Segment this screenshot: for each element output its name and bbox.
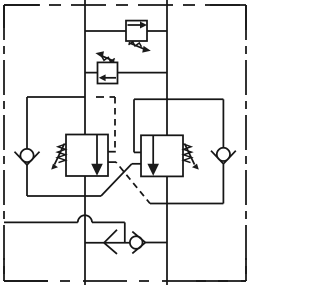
check valve CV3 seat xyxy=(132,232,145,254)
counterbalance CB2 flow arrow xyxy=(152,136,154,165)
wire line A upper xyxy=(84,0,86,135)
wire port line from left boundary xyxy=(4,221,78,223)
relief valve RV1 adjust arrow xyxy=(129,43,144,49)
wire bottom left branch xyxy=(27,195,101,197)
wire CB2 lower-left stub xyxy=(132,163,141,165)
counterbalance CB1 body xyxy=(66,135,108,177)
counterbalance CB2 adjust arrow xyxy=(185,144,195,165)
relief valve RV1 spring xyxy=(129,42,142,47)
enclosure border top xyxy=(4,4,246,6)
wire bottom link right xyxy=(145,242,167,244)
relief valve RV1 flow arrow xyxy=(128,24,141,26)
wire line B lower xyxy=(166,176,168,285)
relief valve RV2 body xyxy=(98,62,118,83)
counterbalance CB2 spring xyxy=(183,144,192,163)
pilot line CB1 dashed xyxy=(96,96,115,98)
wire RV2 branch xyxy=(85,72,167,74)
counterbalance CB1 adjust arrow xyxy=(55,144,65,165)
wire CB1 lower-right stub xyxy=(108,161,116,163)
wire drop to bottom link xyxy=(124,222,126,242)
counterbalance CB2 body xyxy=(141,135,183,176)
check valve CV3 ball xyxy=(130,236,143,249)
crossover hop over line A xyxy=(78,215,92,222)
check valve CV2 seat xyxy=(211,151,236,164)
relief valve RV2 adjust arrow xyxy=(100,55,114,61)
wire left check riser upper xyxy=(26,97,28,149)
relief valve RV1 body xyxy=(126,21,147,41)
check valve CV2 ball xyxy=(217,148,230,161)
counterbalance CB1 spring xyxy=(58,144,67,163)
pilot dashed diagonal to right xyxy=(116,162,150,203)
wire CB2 upper-left stub xyxy=(134,151,141,153)
wire port line continued xyxy=(92,221,125,223)
pilot wire diagonal to CB2 xyxy=(101,164,132,196)
wire line A lower xyxy=(84,176,86,285)
wire right check riser lower xyxy=(222,164,224,204)
enclosure border right xyxy=(245,5,247,281)
wire check bypass top right xyxy=(134,98,223,100)
wire right check riser upper xyxy=(222,99,224,148)
wire left check riser lower xyxy=(26,165,28,196)
wire bottom right branch xyxy=(150,203,223,205)
wire RV1 branch xyxy=(85,30,167,32)
wire CB2 pilot riser xyxy=(133,99,135,152)
check valve CV1 ball xyxy=(20,149,33,162)
wire bottom link left xyxy=(85,242,130,244)
wire line B upper xyxy=(166,0,168,135)
enclosure border bottom xyxy=(4,280,246,282)
relief valve RV2 flow arrow xyxy=(104,77,116,79)
enclosure border corner reinforcements xyxy=(4,5,246,281)
wire CB1 upper-right stub xyxy=(108,151,116,153)
open flow arrowhead xyxy=(104,230,117,254)
counterbalance CB1 flow arrow xyxy=(96,135,98,165)
check valve CV1 seat xyxy=(15,152,40,165)
wire check bypass top left xyxy=(27,96,85,98)
relief valve RV2 spring xyxy=(102,57,115,62)
enclosure border left xyxy=(3,5,5,281)
